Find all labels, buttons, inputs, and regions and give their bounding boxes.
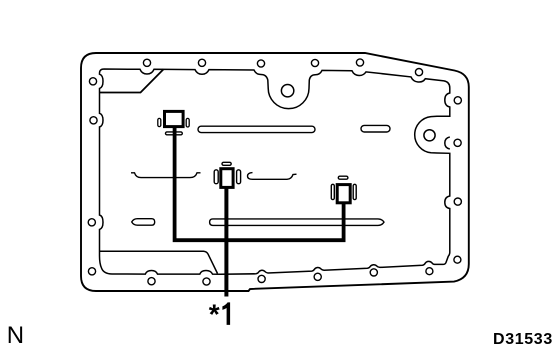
- oil pan outer outline: [81, 53, 469, 291]
- bolt holes right column: [454, 97, 461, 205]
- long slot capsule middle (pointed right end): [210, 219, 384, 226]
- bump on inner right edge around hole at y=143 (over boss): [445, 137, 450, 149]
- boss circle right: [424, 130, 435, 141]
- bolt holes top row: [143, 59, 422, 76]
- long slot capsule upper: [198, 126, 315, 132]
- small slot capsule left (pointed left end): [132, 219, 155, 226]
- wire connector2 vertical drop to *1: [224, 188, 228, 297]
- bottom-left rib line: [100, 251, 218, 273]
- svg-text:*: *: [209, 298, 220, 329]
- oil pan inner outline (gasket line with bolt bumps): [100, 69, 450, 274]
- rib bracket right (curled left end, hooked right end): [248, 173, 297, 180]
- connector C3 (right solenoid): [331, 176, 356, 203]
- boss circle top-middle: [281, 85, 293, 97]
- small slot capsule upper right: [361, 125, 390, 132]
- svg-text:D31533: D31533: [493, 331, 553, 348]
- connector C2 (middle solenoid): [214, 162, 240, 187]
- connector C1 (upper left solenoid): [158, 111, 189, 134]
- wire harness: connector1 drop, horizontal run, connector3 drop: [175, 127, 344, 240]
- bolt holes bottom row: [148, 256, 461, 285]
- svg-text:N: N: [7, 322, 24, 348]
- rib bracket left (hooked ends): [131, 173, 201, 178]
- label *1 digit one (drawn, Arial-style no foot): [222, 302, 230, 325]
- bolt holes left column: [88, 78, 97, 275]
- top-left diagonal ridge: [100, 69, 164, 92]
